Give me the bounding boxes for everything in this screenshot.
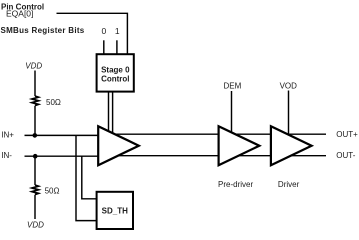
svg-text:Control: Control: [101, 75, 129, 84]
svg-text:SD_TH: SD_TH: [102, 206, 128, 215]
svg-text:OUT-: OUT-: [336, 151, 355, 160]
svg-text:VDD: VDD: [27, 221, 44, 230]
svg-text:Stage 0: Stage 0: [101, 65, 130, 74]
svg-text:0: 0: [102, 26, 107, 36]
svg-text:Driver: Driver: [278, 180, 300, 189]
svg-text:IN-: IN-: [1, 151, 12, 160]
svg-text:IN+: IN+: [1, 131, 14, 140]
svg-text:1: 1: [115, 26, 120, 36]
svg-text:50Ω: 50Ω: [45, 186, 60, 195]
svg-text:DEM: DEM: [224, 81, 242, 90]
svg-text:Pre-driver: Pre-driver: [218, 180, 253, 189]
svg-text:VOD: VOD: [280, 81, 298, 90]
svg-text:OUT+: OUT+: [336, 130, 358, 139]
svg-text:SMBus Register Bits: SMBus Register Bits: [1, 26, 85, 35]
svg-text:50Ω: 50Ω: [46, 98, 61, 107]
svg-text:EQA[0]: EQA[0]: [6, 9, 33, 19]
svg-text:VDD: VDD: [25, 62, 42, 71]
